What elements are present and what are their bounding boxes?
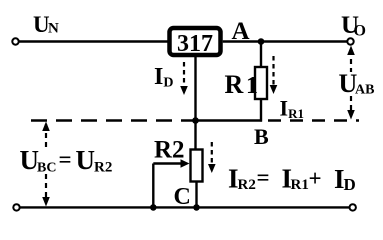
svg-text:O: O	[354, 23, 366, 40]
svg-text:R2: R2	[94, 160, 112, 176]
svg-text:B: B	[254, 124, 269, 149]
svg-text:ID: ID	[154, 64, 173, 91]
svg-text:D: D	[344, 175, 356, 194]
svg-text:U: U	[76, 145, 96, 175]
svg-text:R: R	[225, 70, 244, 99]
svg-text:AB: AB	[355, 83, 374, 98]
svg-text:R2: R2	[154, 137, 185, 164]
svg-text:C: C	[174, 184, 191, 210]
svg-text:317: 317	[177, 31, 213, 57]
svg-text:IR1: IR1	[280, 96, 304, 122]
svg-text:+: +	[309, 166, 322, 191]
svg-text:A: A	[232, 18, 250, 45]
svg-text:BC: BC	[37, 161, 56, 176]
svg-text:R1: R1	[291, 177, 309, 193]
svg-text:R2: R2	[238, 177, 256, 193]
svg-text:=: =	[257, 165, 270, 190]
svg-text:N: N	[48, 21, 59, 37]
svg-text:=: =	[59, 147, 72, 172]
svg-text:1: 1	[246, 73, 258, 99]
